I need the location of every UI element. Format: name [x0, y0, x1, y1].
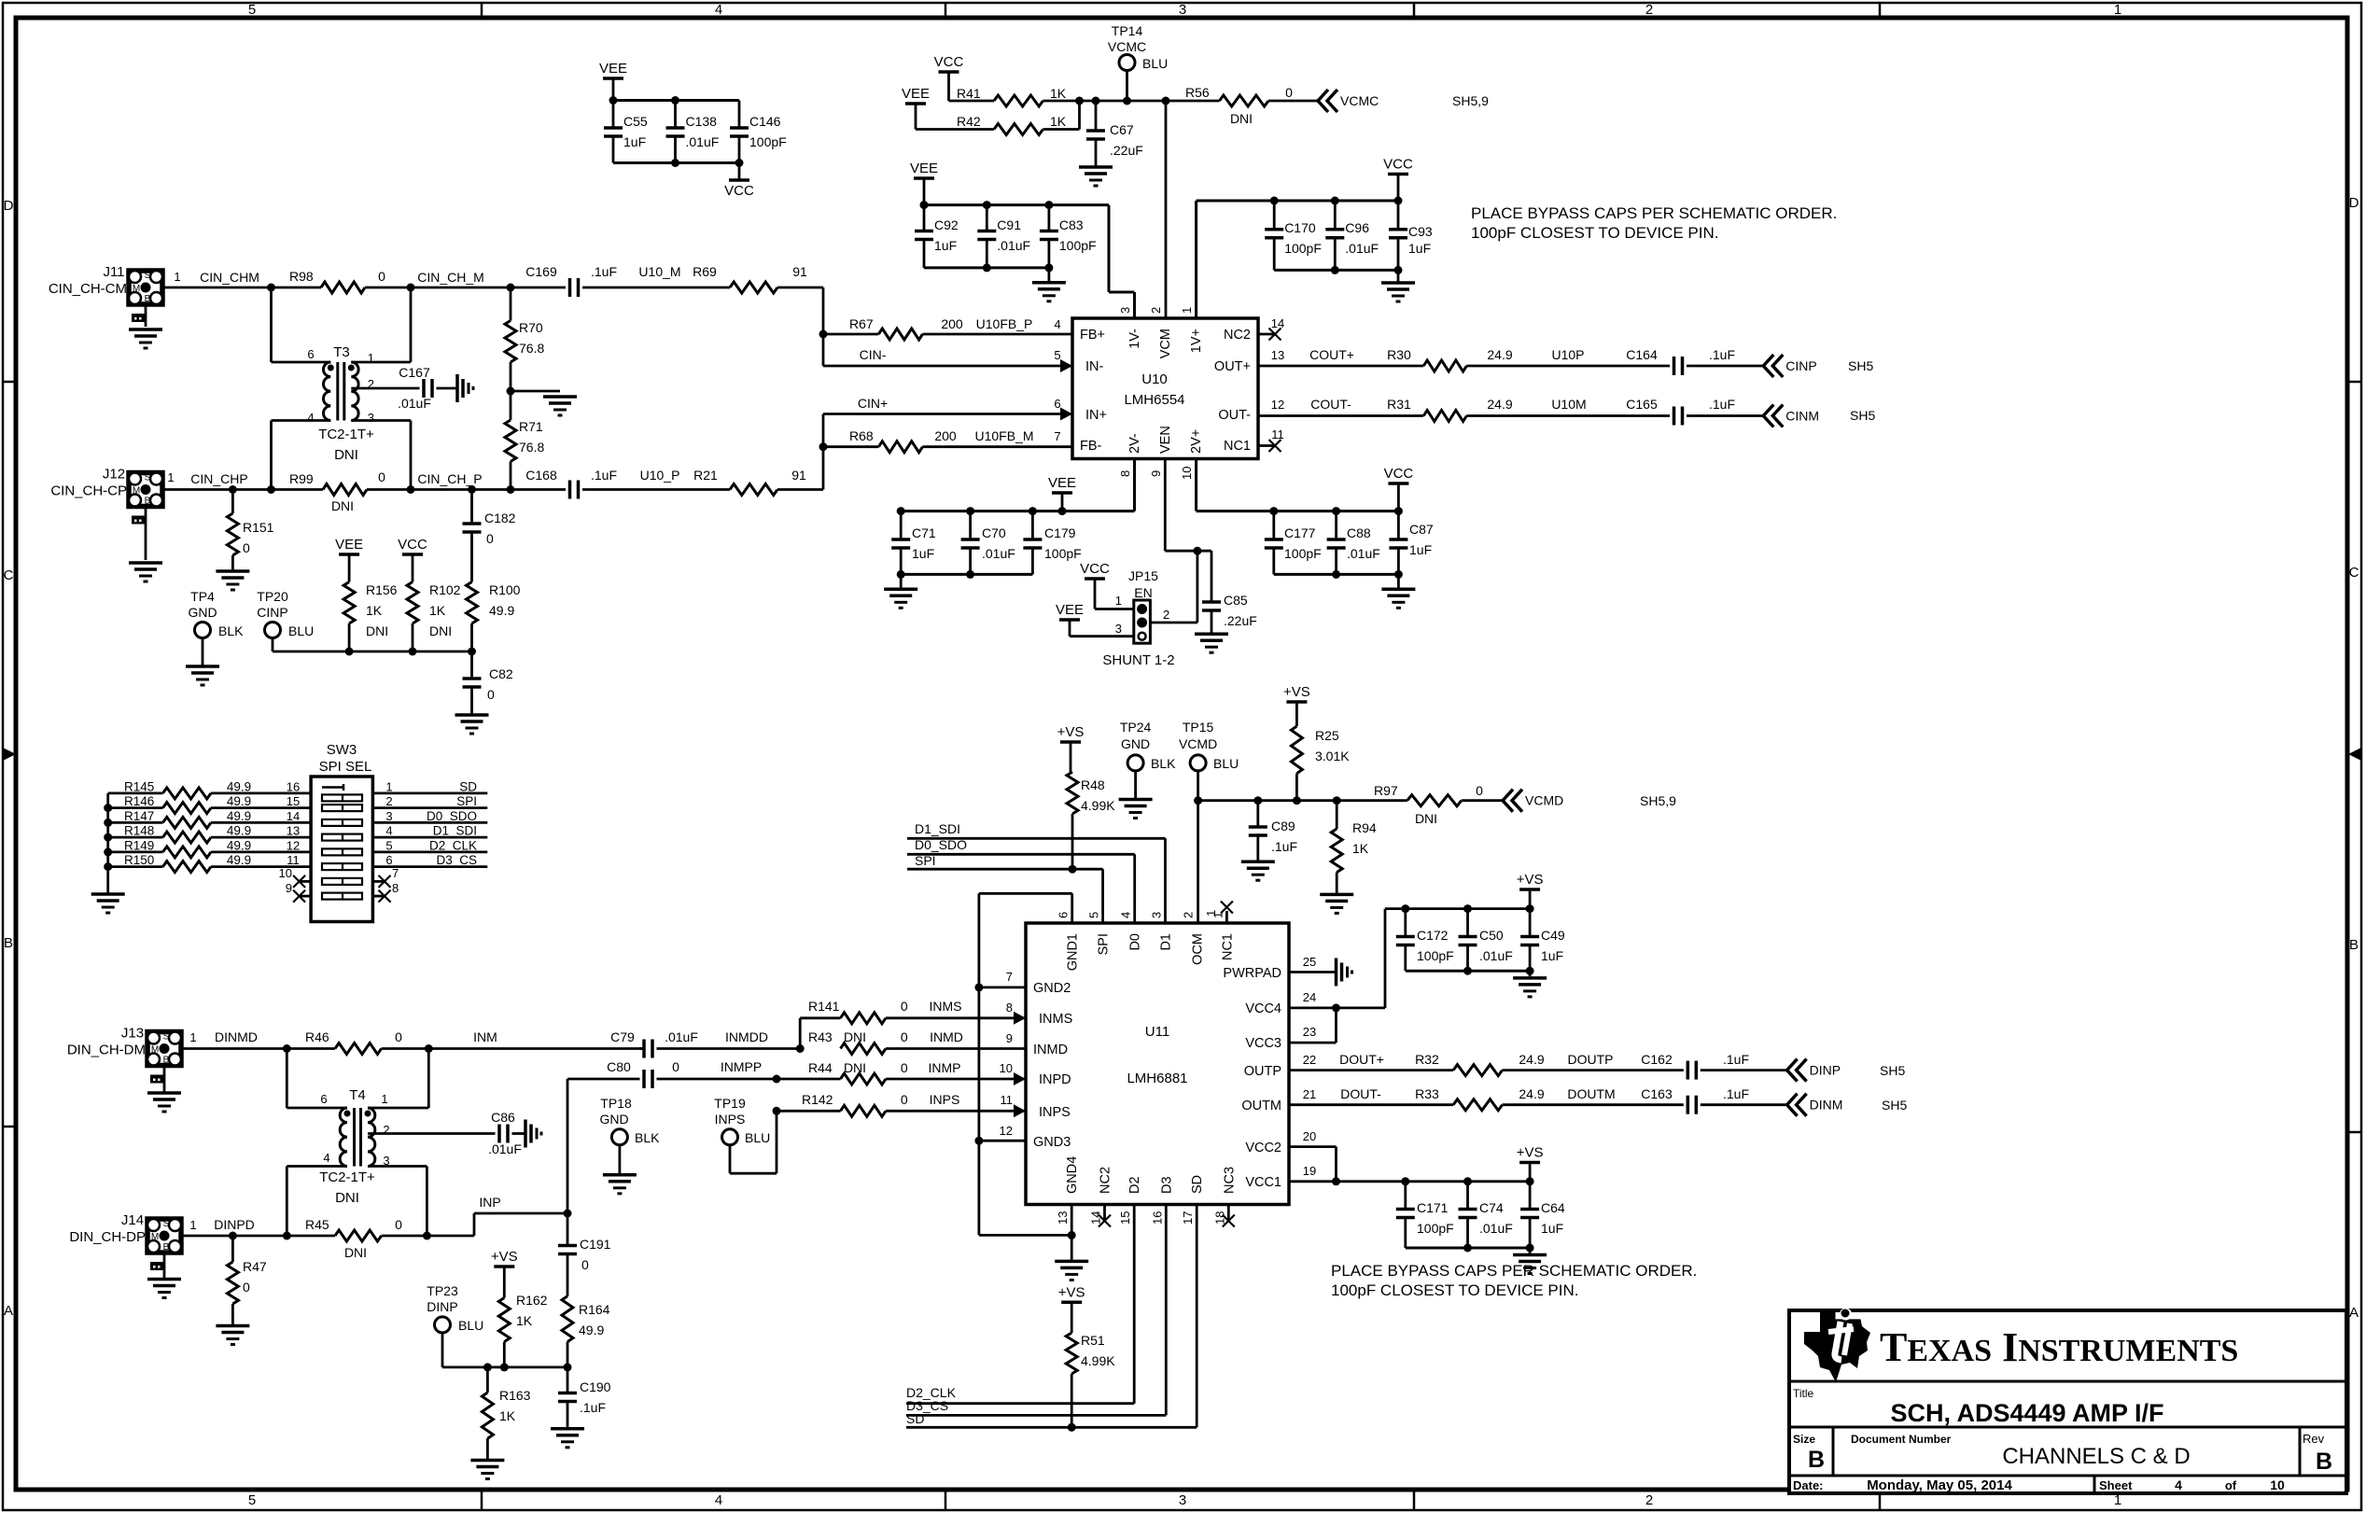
transformer T3 TC2-1T+ — [307, 344, 374, 463]
power symbol VCC — [724, 180, 754, 199]
svg-text:TC2-1T+: TC2-1T+ — [318, 427, 374, 442]
svg-text:CIN+: CIN+ — [858, 396, 888, 411]
wire cap bank bottom rail — [613, 159, 744, 180]
resistor R100 49.9 — [467, 582, 521, 652]
svg-text:13: 13 — [1271, 348, 1284, 362]
svg-text:C169: C169 — [525, 264, 557, 279]
svg-text:13: 13 — [1056, 1211, 1070, 1225]
switch SW3 positions — [322, 784, 362, 900]
ground C49 — [1513, 978, 1547, 997]
capacitor C86 .01uF — [368, 1110, 525, 1156]
svg-text:GND3: GND3 — [1033, 1135, 1071, 1150]
test point TP23 DINP BLU — [427, 1283, 571, 1371]
svg-text:0: 0 — [901, 1060, 908, 1075]
svg-text:D1: D1 — [1159, 933, 1174, 951]
svg-text:GND1: GND1 — [1066, 933, 1081, 971]
svg-text:4: 4 — [323, 1151, 329, 1165]
resistor R102 1K DNI — [407, 582, 461, 652]
svg-text:DNI: DNI — [335, 1190, 359, 1206]
svg-text:C177: C177 — [1284, 525, 1316, 540]
svg-text:91: 91 — [791, 468, 806, 483]
svg-text:DNI: DNI — [331, 498, 354, 513]
svg-text:2: 2 — [1182, 912, 1196, 918]
svg-text:INMPP: INMPP — [721, 1059, 762, 1074]
svg-text:DINP: DINP — [427, 1299, 457, 1314]
ground C83 — [1032, 283, 1066, 301]
svg-text:2: 2 — [1149, 307, 1163, 314]
resistor R69 91 — [730, 264, 823, 293]
resistor R68 200 — [823, 428, 1072, 453]
svg-text:.1uF: .1uF — [591, 264, 617, 279]
svg-text:SPI: SPI — [915, 853, 936, 868]
capacitor C87 1uF — [1389, 511, 1433, 575]
wire T3 pin3 — [351, 421, 411, 490]
svg-text:R33: R33 — [1415, 1086, 1439, 1101]
connector J12 CIN_CH-CP — [50, 467, 162, 561]
capacitor C49 1uF — [1520, 909, 1565, 972]
svg-text:16: 16 — [1150, 1211, 1164, 1225]
svg-text:FB-: FB- — [1080, 439, 1102, 454]
svg-text:B: B — [163, 1056, 170, 1066]
wire C92 bank bottom rail — [924, 263, 1053, 282]
ground C82 — [455, 715, 489, 734]
svg-text:B: B — [145, 497, 151, 507]
svg-text:10: 10 — [1000, 1061, 1013, 1075]
svg-text:1: 1 — [174, 270, 180, 284]
svg-text:C163: C163 — [1641, 1086, 1673, 1101]
svg-text:IN-: IN- — [1085, 359, 1104, 374]
wire CIN_CHM — [162, 270, 321, 292]
svg-text:INMD: INMD — [1033, 1043, 1068, 1057]
svg-text:23: 23 — [1303, 1025, 1316, 1039]
svg-text:7: 7 — [1054, 429, 1060, 443]
test point TP18 GND BLK — [599, 1096, 660, 1173]
svg-text:200: 200 — [934, 428, 957, 443]
svg-text:R100: R100 — [489, 582, 521, 597]
resistor R141 0 INMS — [800, 999, 1026, 1049]
svg-text:S: S — [163, 1032, 170, 1043]
wire SW3 pin6 net D3_CS — [372, 853, 487, 867]
svg-text:+VS: +VS — [491, 1249, 518, 1265]
svg-text:C168: C168 — [525, 468, 557, 483]
svg-text:R70: R70 — [519, 320, 543, 335]
svg-text:D0: D0 — [1128, 933, 1143, 951]
wire GND1 GND2 GND3 GND4 net — [974, 893, 1075, 1260]
svg-text:SH5,9: SH5,9 — [1452, 93, 1489, 108]
wire net D1_SDI — [907, 821, 1166, 923]
svg-text:TC2-1T+: TC2-1T+ — [319, 1169, 375, 1185]
svg-text:.1uF: .1uF — [580, 1400, 606, 1415]
svg-text:C85: C85 — [1224, 593, 1248, 608]
wire C171 bank bottom rail — [1406, 1244, 1534, 1254]
svg-text:5: 5 — [1054, 348, 1060, 362]
off-page connector CINM — [1763, 405, 1875, 427]
svg-text:INMDD: INMDD — [725, 1029, 768, 1044]
wire net D0_SDO — [907, 837, 1135, 923]
svg-text:R42: R42 — [957, 114, 981, 129]
svg-text:of: of — [2225, 1478, 2237, 1492]
svg-text:R41: R41 — [957, 86, 981, 101]
resistor R70 76.8 — [505, 287, 544, 391]
svg-text:1K: 1K — [1050, 114, 1067, 129]
svg-text:R30: R30 — [1387, 347, 1411, 362]
test point TP14 — [1108, 23, 1168, 101]
capacitor C190 .1uF — [558, 1367, 611, 1428]
ground TP4 — [186, 666, 219, 685]
svg-text:1uF: 1uF — [934, 238, 957, 253]
svg-text:.1uF: .1uF — [1723, 1086, 1749, 1101]
power symbol VEE JP15 — [1056, 602, 1134, 637]
svg-text:R98: R98 — [289, 269, 314, 284]
svg-text:0: 0 — [901, 1029, 908, 1044]
svg-text:BLK: BLK — [635, 1130, 660, 1145]
svg-text:A: A — [4, 1303, 13, 1319]
resistor R163 1K — [482, 1367, 530, 1459]
svg-text:BLU: BLU — [288, 623, 314, 638]
svg-text:D3: D3 — [1159, 1176, 1174, 1194]
resistor R147 49.9 — [108, 809, 311, 829]
wire SW3 pin4 net D1_SDI — [372, 824, 487, 838]
svg-text:4: 4 — [307, 411, 314, 425]
ground J11 — [129, 329, 162, 348]
svg-text:R51: R51 — [1081, 1333, 1105, 1348]
svg-text:C182: C182 — [484, 511, 516, 525]
svg-text:1V-: 1V- — [1127, 329, 1142, 349]
svg-text:7: 7 — [392, 866, 399, 880]
wire DOUT- / resistor R33 24.9 / capacitor C163 — [1289, 1086, 1787, 1114]
svg-text:.01uF: .01uF — [997, 238, 1030, 253]
svg-text:.22uF: .22uF — [1224, 613, 1257, 628]
svg-text:19: 19 — [1303, 1164, 1316, 1178]
svg-text:.01uF: .01uF — [1345, 241, 1379, 256]
svg-text:0: 0 — [378, 269, 385, 284]
svg-text:4: 4 — [1119, 912, 1133, 918]
resistor R164 49.9 — [562, 1296, 610, 1367]
ground TP24 — [1119, 800, 1153, 819]
wire DINMD — [181, 1029, 335, 1053]
capacitor C50 .01uF — [1459, 909, 1513, 972]
no-connect U11 pin14 NC2 — [1099, 1205, 1111, 1227]
svg-text:C167: C167 — [399, 365, 430, 380]
switch SW3 SPI SEL — [311, 742, 372, 922]
svg-text:J11: J11 — [103, 264, 124, 280]
svg-text:6: 6 — [1057, 912, 1071, 918]
svg-text:100pF: 100pF — [1284, 241, 1322, 256]
svg-text:PLACE BYPASS CAPS PER SCHEMATI: PLACE BYPASS CAPS PER SCHEMATIC ORDER. — [1471, 204, 1837, 222]
svg-text:0: 0 — [672, 1059, 679, 1074]
wire T4 pin1 — [368, 1049, 428, 1109]
capacitor C177 100pF — [1265, 511, 1322, 575]
svg-text:VCMD: VCMD — [1525, 793, 1563, 808]
svg-text:OUTM: OUTM — [1241, 1099, 1281, 1113]
ground C67 — [1079, 167, 1113, 186]
svg-text:CHANNELS C & D: CHANNELS C & D — [2002, 1444, 2190, 1469]
svg-text:21: 21 — [1303, 1087, 1316, 1101]
capacitor C138 — [666, 101, 720, 163]
svg-text:17: 17 — [1181, 1211, 1195, 1225]
wire net SPI — [907, 853, 1103, 923]
wire VEN pin9 to C85 — [1165, 459, 1211, 555]
svg-text:Title: Title — [1793, 1387, 1814, 1400]
svg-text:CIN_CH_P: CIN_CH_P — [417, 471, 482, 486]
svg-text:U10_P: U10_P — [640, 468, 680, 483]
capacitor C168 .1uF — [511, 468, 730, 499]
svg-text:1: 1 — [1180, 307, 1194, 314]
svg-text:TP19: TP19 — [714, 1096, 746, 1111]
capacitor C96 .01uF — [1325, 201, 1379, 270]
power symbol VCC R102 — [398, 537, 427, 582]
svg-text:SHUNT 1-2: SHUNT 1-2 — [1102, 652, 1174, 668]
resistor R71 76.8 — [505, 391, 544, 490]
no-connect SW3 pin9 — [286, 881, 311, 903]
svg-text:1: 1 — [1115, 594, 1122, 608]
svg-text:R47: R47 — [243, 1259, 267, 1274]
wire net D2_CLK — [906, 1205, 1134, 1404]
wire SW3 pin2 net SPI — [372, 794, 487, 808]
wire net SD — [906, 1205, 1197, 1432]
svg-text:R150: R150 — [124, 853, 154, 867]
ground R70R71 — [543, 397, 577, 415]
wire 2V- rail — [897, 459, 1135, 516]
note PLACE BYPASS CAPS — [1471, 204, 1837, 242]
svg-text:100pF: 100pF — [1059, 238, 1097, 253]
svg-text:VCC: VCC — [1383, 157, 1413, 173]
svg-text:DNI: DNI — [344, 1245, 367, 1260]
svg-text:DOUTP: DOUTP — [1568, 1052, 1614, 1067]
power symbol VEE C92 — [910, 161, 938, 205]
svg-text:1uF: 1uF — [1541, 1221, 1563, 1236]
svg-text:0: 0 — [901, 1092, 908, 1107]
svg-text:R146: R146 — [124, 794, 154, 808]
svg-text:49.9: 49.9 — [227, 809, 251, 823]
svg-text:PLACE BYPASS CAPS PER SCHEMATI: PLACE BYPASS CAPS PER SCHEMATIC ORDER. — [1331, 1262, 1697, 1280]
power symbol VCC C93 — [1383, 157, 1413, 202]
wire INP riser to C80 — [567, 1079, 640, 1213]
svg-text:3: 3 — [1179, 1492, 1186, 1508]
svg-text:D1_SDI: D1_SDI — [433, 824, 477, 838]
svg-text:3: 3 — [368, 411, 374, 425]
svg-text:D: D — [2349, 195, 2359, 211]
off-page connector DINP — [1787, 1059, 1906, 1082]
svg-text:1: 1 — [189, 1030, 196, 1044]
wire SW3 pin1 net SD — [372, 779, 487, 793]
svg-text:5: 5 — [248, 2, 256, 18]
svg-text:2: 2 — [1645, 1492, 1653, 1508]
svg-text:C190: C190 — [580, 1379, 611, 1394]
svg-text:CIN-: CIN- — [860, 347, 887, 362]
svg-text:R164: R164 — [579, 1302, 610, 1317]
svg-text:6: 6 — [307, 347, 314, 361]
svg-text:12: 12 — [1271, 398, 1284, 412]
svg-text:VCC1: VCC1 — [1245, 1175, 1281, 1190]
svg-text:SH5: SH5 — [1880, 1063, 1905, 1078]
resistor R46 0 — [305, 1029, 645, 1055]
resistor R145 49.9 — [108, 779, 311, 799]
svg-text:M: M — [133, 284, 140, 294]
svg-text:1: 1 — [189, 1218, 196, 1232]
no-connect pin14 NC2 — [1258, 316, 1284, 341]
svg-text:OUTP: OUTP — [1244, 1064, 1281, 1079]
svg-text:3: 3 — [1118, 307, 1132, 314]
svg-text:R147: R147 — [124, 809, 154, 823]
svg-text:R94: R94 — [1352, 820, 1377, 835]
svg-text:.1uF: .1uF — [1709, 397, 1735, 412]
svg-text:.22uF: .22uF — [1110, 143, 1143, 158]
wire C71 bank bottom rail — [897, 570, 1033, 589]
svg-text:76.8: 76.8 — [519, 440, 544, 455]
svg-text:B: B — [145, 294, 151, 304]
svg-text:C: C — [2349, 565, 2359, 581]
svg-text:BLU: BLU — [458, 1318, 483, 1333]
svg-text:C64: C64 — [1541, 1200, 1565, 1215]
ground J12 — [129, 563, 162, 581]
svg-text:R56: R56 — [1185, 85, 1210, 100]
svg-text:1uF: 1uF — [912, 546, 934, 561]
svg-text:0: 0 — [378, 469, 385, 484]
capacitor C91 .01uF — [977, 205, 1030, 268]
svg-text:0: 0 — [487, 687, 495, 702]
svg-text:CIN_CHM: CIN_CHM — [200, 270, 259, 285]
wire VCMD node — [1194, 796, 1407, 923]
connector J11 CIN_CH-CM — [49, 264, 162, 327]
svg-text:C164: C164 — [1626, 347, 1658, 362]
capacitor C93 1uF — [1389, 201, 1433, 270]
test point TP4 GND BLK — [188, 589, 244, 665]
svg-text:M: M — [151, 1232, 159, 1242]
svg-text:C82: C82 — [489, 666, 513, 681]
wire CIN- net — [823, 347, 1072, 366]
svg-text:VCC3: VCC3 — [1245, 1036, 1281, 1051]
svg-text:C87: C87 — [1409, 522, 1434, 537]
svg-text:1K: 1K — [1050, 86, 1067, 101]
svg-text:.01uF: .01uF — [1479, 948, 1513, 963]
resistor R44 0 DNI INMP — [777, 1060, 1026, 1085]
svg-text:1: 1 — [2114, 2, 2121, 18]
ground C87 — [1381, 589, 1415, 608]
svg-text:S: S — [145, 271, 151, 281]
svg-text:OCM: OCM — [1191, 933, 1206, 965]
connector J14 DIN_CH-DP — [69, 1212, 181, 1278]
svg-text:VEE: VEE — [335, 537, 363, 553]
svg-text:2: 2 — [1163, 608, 1169, 622]
svg-text:R68: R68 — [849, 428, 874, 443]
svg-text:C170: C170 — [1284, 220, 1316, 235]
svg-text:SH5: SH5 — [1848, 358, 1873, 373]
svg-text:6: 6 — [385, 853, 392, 867]
svg-text:0: 0 — [1476, 783, 1483, 798]
svg-text:R67: R67 — [849, 316, 874, 331]
svg-text:JP15: JP15 — [1128, 568, 1158, 583]
power symbol +VS R51 — [1058, 1284, 1085, 1333]
connector J13 DIN_CH-DM — [67, 1026, 181, 1093]
svg-text:24.9: 24.9 — [1519, 1086, 1544, 1101]
resistor R47 0 — [227, 1236, 266, 1324]
wire VCC2 VCC1 to +VS rail — [1289, 1129, 1534, 1185]
capacitor C82 0 — [463, 651, 513, 714]
svg-text:3.01K: 3.01K — [1315, 749, 1350, 763]
svg-text:100pF: 100pF — [1417, 1221, 1454, 1236]
svg-text:C88: C88 — [1347, 525, 1371, 540]
svg-text:VEE: VEE — [599, 61, 627, 77]
svg-text:VCC: VCC — [1384, 466, 1414, 482]
svg-text:DNI: DNI — [844, 1029, 866, 1044]
svg-text:6: 6 — [1054, 397, 1060, 411]
capacitor C182 0 — [463, 490, 516, 582]
svg-text:CIN_CHP: CIN_CHP — [190, 471, 247, 486]
svg-text:VCMD: VCMD — [1179, 736, 1217, 751]
wire C172 bank bottom rail — [1406, 967, 1534, 976]
svg-text:DIN_CH-DP: DIN_CH-DP — [69, 1229, 146, 1245]
svg-text:S: S — [163, 1219, 170, 1229]
op-amp U10 LMH6554 — [1060, 307, 1258, 480]
wire T4 pin3 — [368, 1167, 427, 1237]
svg-text:VEE: VEE — [902, 86, 930, 102]
svg-text:Size: Size — [1793, 1433, 1815, 1446]
svg-text:8: 8 — [1118, 470, 1132, 477]
svg-text:4.99K: 4.99K — [1081, 1353, 1115, 1368]
svg-text:U10FB_P: U10FB_P — [976, 316, 1033, 331]
ground C190 — [551, 1429, 584, 1448]
svg-text:TP15: TP15 — [1183, 720, 1214, 735]
capacitor C79 .01uF INMDD — [610, 1029, 805, 1058]
svg-text:C83: C83 — [1059, 217, 1084, 232]
capacitor C89 .1uF — [1249, 801, 1297, 861]
svg-text:R162: R162 — [516, 1293, 548, 1308]
svg-text:VCC4: VCC4 — [1245, 1001, 1281, 1016]
resistor R151 0 — [227, 490, 273, 572]
wire C170 bank bottom rail — [1274, 266, 1402, 283]
svg-text:91: 91 — [792, 264, 807, 279]
svg-text:SPI: SPI — [456, 794, 477, 808]
svg-text:10: 10 — [1180, 467, 1194, 480]
wire VCC4 VCC3 to +VS rail — [1289, 904, 1534, 1043]
resistor R146 49.9 — [108, 794, 311, 814]
svg-text:TP20: TP20 — [257, 589, 288, 604]
svg-text:D1_SDI: D1_SDI — [915, 821, 960, 836]
svg-text:.01uF: .01uF — [665, 1029, 698, 1044]
svg-text:R102: R102 — [429, 582, 461, 597]
svg-text:C172: C172 — [1417, 928, 1449, 943]
power symbol VEE pin8 rail — [1048, 475, 1076, 511]
svg-text:BLU: BLU — [745, 1130, 770, 1145]
svg-text:DOUTM: DOUTM — [1567, 1086, 1615, 1101]
resistor R42 1K — [916, 101, 1080, 135]
svg-text:BLU: BLU — [1142, 56, 1168, 71]
svg-text:S: S — [145, 473, 151, 483]
svg-text:+VS: +VS — [1517, 872, 1544, 888]
svg-text:C50: C50 — [1479, 928, 1504, 943]
svg-text:U10FB_M: U10FB_M — [974, 428, 1033, 443]
svg-text:11: 11 — [287, 853, 300, 867]
svg-text:.1uF: .1uF — [591, 468, 617, 483]
ground C93 — [1381, 283, 1415, 301]
svg-text:TP18: TP18 — [600, 1096, 632, 1111]
ground R151 — [216, 571, 249, 590]
svg-text:49.9: 49.9 — [227, 824, 251, 838]
svg-text:1uF: 1uF — [623, 134, 646, 149]
svg-text:B: B — [2349, 937, 2359, 953]
resistor R98 0 — [289, 269, 515, 293]
svg-text:DNI: DNI — [1415, 811, 1437, 826]
transformer T4 TC2-1T+ — [319, 1087, 389, 1206]
note PLACE BYPASS CAPS 2 — [1331, 1262, 1697, 1299]
svg-text:SPI SEL: SPI SEL — [319, 759, 372, 775]
svg-text:C146: C146 — [749, 114, 781, 129]
resistor R94 1K — [1331, 801, 1377, 893]
svg-text:DOUT-: DOUT- — [1340, 1086, 1381, 1101]
resistor R56 0 DNI — [1185, 85, 1318, 126]
svg-text:DINM: DINM — [1810, 1098, 1843, 1113]
